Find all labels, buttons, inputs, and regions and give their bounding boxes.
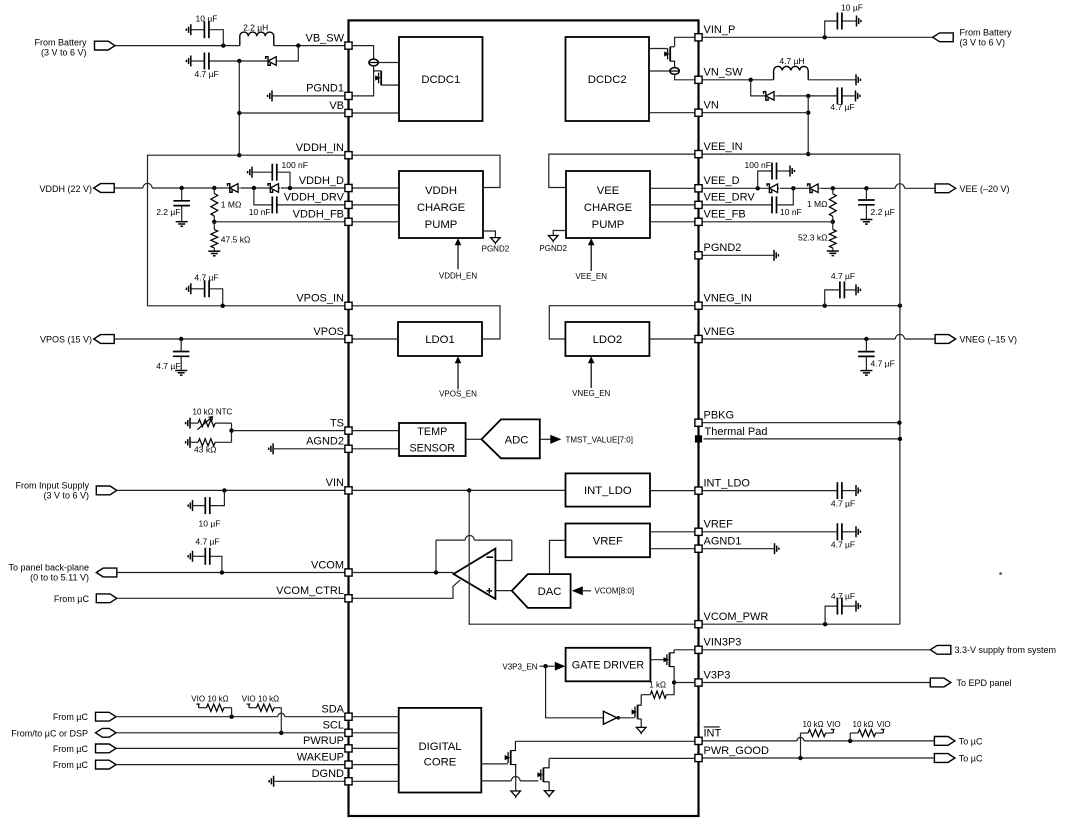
transistor Q1 DCDC1 low side — [374, 71, 399, 85]
svg-text:VEE: VEE — [597, 185, 620, 197]
pin PBKG — [695, 419, 702, 426]
node VN junction — [806, 111, 810, 115]
node TS junction — [229, 428, 233, 432]
NTC arrow overlay — [197, 417, 212, 430]
label C7 value 10 nF — [249, 207, 271, 217]
svg-text:100 nF: 100 nF — [745, 160, 771, 170]
pin Thermal Pad (filled) — [695, 435, 702, 442]
block TEMP SENSOR — [399, 423, 466, 456]
ground at C5 — [176, 222, 188, 227]
diode D5 — [767, 184, 779, 193]
signal VEE_EN enable arrow — [575, 238, 607, 281]
pin label VEE_FB — [704, 209, 746, 221]
label From uC (VCOM_CTRL) — [54, 594, 90, 604]
pin label VDDH_D — [299, 175, 344, 187]
node battery/C1 junction — [221, 43, 225, 47]
svg-text:10 µF: 10 µF — [199, 519, 221, 529]
label R5 value 43 kohm — [194, 444, 216, 454]
wire D5 to D6 — [780, 187, 810, 189]
svg-text:SENSOR: SENSOR — [409, 442, 455, 454]
label VNEG (-15 V) — [960, 335, 1018, 345]
wire VPOS_IN internal loop — [352, 306, 500, 339]
ground at C18 — [188, 551, 192, 562]
svg-text:10 kΩ: 10 kΩ — [803, 720, 824, 729]
svg-text:VN: VN — [704, 100, 719, 112]
wire VCOM rail — [117, 572, 345, 574]
ground at C13 — [856, 284, 860, 295]
wire INT_LDO to pin — [650, 490, 695, 492]
wire switch to VN_SW — [675, 74, 695, 79]
capacitor C4 4.7uF — [837, 87, 855, 104]
label R2 value 47.5 kohm — [221, 234, 251, 244]
node C11/VPOS_IN — [221, 304, 225, 308]
svg-text:VIN_P: VIN_P — [704, 24, 736, 36]
node VEE/R3 — [831, 186, 835, 190]
svg-text:CHARGE: CHARGE — [584, 202, 633, 214]
capacitor C6 100nF — [252, 164, 277, 181]
block INT_LDO — [566, 473, 651, 506]
pin TS — [345, 427, 352, 434]
svg-text:4.7 µF: 4.7 µF — [831, 591, 855, 601]
svg-text:10 nF: 10 nF — [249, 207, 271, 217]
svg-text:From Battery: From Battery — [960, 27, 1013, 37]
pin VB_SW — [345, 42, 352, 49]
wire VB_SW inductor to pin — [274, 45, 345, 47]
node SDA pullup — [229, 715, 233, 719]
wire L2 to ground — [808, 79, 856, 81]
wire PGND1 — [272, 95, 345, 97]
wire C1 branch — [210, 30, 224, 46]
pin PWRUP — [345, 745, 352, 752]
svg-text:To µC: To µC — [959, 736, 983, 746]
pin label VDDH_IN — [296, 142, 344, 154]
label PGND2 (VEE CP) — [539, 244, 567, 253]
buffer U3 triangle — [603, 711, 616, 724]
connector VNEG output — [935, 335, 956, 344]
transistor Q5 pulldown — [632, 695, 642, 728]
resistor R6 1 kohm — [641, 691, 669, 698]
ground at C2 — [186, 56, 190, 67]
svg-text:VPOS (15 V): VPOS (15 V) — [40, 335, 92, 345]
node VNEG/C14 — [864, 337, 868, 341]
pin DGND — [345, 778, 352, 785]
wire AGND2 internal — [352, 448, 399, 450]
wire VDDH_FB internal — [352, 221, 399, 223]
svg-text:10 kΩ: 10 kΩ — [208, 695, 229, 704]
block ADC — [482, 419, 540, 458]
op-amp U2 VCOM amplifier — [454, 549, 496, 599]
svg-text:PGND2: PGND2 — [482, 244, 510, 253]
wire core to Q7 gate with hop — [481, 777, 538, 781]
wire VCOM internal — [352, 572, 454, 574]
node VIN_P/C3 — [823, 35, 827, 39]
svg-text:VIO: VIO — [877, 720, 891, 729]
wire VREF to DAC — [550, 540, 566, 574]
pin label PWR_GOOD — [704, 745, 769, 757]
wire VEE_D external — [702, 187, 769, 189]
block VDDH CHARGE PUMP — [399, 171, 483, 238]
label C15 value 10 uF — [199, 519, 221, 529]
wire opamp plus input — [495, 590, 511, 592]
svg-text:4.7 µF: 4.7 µF — [194, 272, 218, 282]
pin label VCOM_CTRL — [276, 585, 344, 597]
label TMST_VALUE[7:0] — [566, 435, 633, 444]
ground at C17 — [856, 526, 860, 537]
connector From uC PWRUP — [96, 744, 117, 753]
pin label VN — [704, 100, 719, 112]
wire VN external — [702, 112, 808, 114]
wire VB — [239, 112, 345, 114]
wire VEE_IN external — [702, 153, 900, 155]
label From/to uC or DSP — [11, 728, 88, 738]
diode D1 — [266, 57, 278, 66]
svg-text:DCDC1: DCDC1 — [421, 74, 460, 86]
block GATE DRIVER — [566, 648, 651, 682]
label From Input Supply — [15, 480, 89, 490]
svg-text:DGND: DGND — [312, 768, 344, 780]
pin label AGND1 — [704, 536, 742, 548]
label VPOS (15 V) — [40, 335, 92, 345]
wire VCOM[8:0] stub — [583, 590, 591, 592]
wire Thermal Pad external — [704, 438, 901, 440]
svg-text:PBKG: PBKG — [704, 410, 735, 422]
wire SCL internal — [352, 732, 399, 734]
wire VIN rail — [117, 489, 345, 491]
wire TEMP to ADC — [466, 438, 482, 440]
svg-text:INT_LDO: INT_LDO — [584, 485, 632, 497]
pin VDDH_DRV — [345, 201, 352, 208]
svg-text:VDDH_IN: VDDH_IN — [296, 142, 344, 154]
label C9 value 10 nF — [780, 207, 802, 217]
ground DGND — [269, 776, 273, 787]
switch symbol DCDC2 low side — [670, 68, 679, 75]
node D2/C4 junction — [806, 94, 810, 98]
pin label Thermal Pad — [705, 426, 768, 438]
svg-text:VIO: VIO — [827, 720, 841, 729]
wire D1 to VB_SW — [279, 46, 299, 61]
wire VEE_FB external — [702, 221, 833, 223]
capacitor C19 4.7uF — [837, 598, 856, 615]
svg-text:From/to µC or DSP: From/to µC or DSP — [11, 728, 88, 738]
wire C15 branch — [211, 490, 225, 505]
capacitor C13 4.7uF — [840, 281, 856, 298]
arrow VCOM[8:0] — [572, 586, 583, 595]
ground PGND2 pin — [774, 250, 778, 261]
wire SCL rail — [116, 732, 345, 734]
transistor Q6 INT open-drain — [505, 741, 516, 776]
svg-text:VIN: VIN — [326, 477, 344, 489]
ground AGND1 — [775, 543, 779, 554]
svg-text:VCOM_PWR: VCOM_PWR — [704, 611, 769, 623]
ground R5 — [186, 437, 190, 448]
pin PGND2 — [695, 252, 702, 259]
svg-text:VDDH_FB: VDDH_FB — [293, 209, 344, 221]
label C8 value 100 nF — [745, 160, 771, 170]
wire VNEG rail with hop — [702, 334, 935, 339]
label R6 value 1 kohm — [649, 681, 666, 690]
block VREF — [566, 524, 651, 558]
pin label VPOS — [313, 326, 344, 338]
capacitor C2 4.7uF — [191, 53, 240, 70]
transistor Q2 DCDC2 high side — [664, 47, 674, 68]
svg-text:VNEG: VNEG — [704, 326, 735, 338]
wire R10 to INT — [849, 733, 851, 741]
svg-text:VDDH: VDDH — [425, 185, 457, 197]
node VNEG_IN/bus — [898, 304, 902, 308]
arrow TMST_VALUE — [550, 435, 561, 444]
svg-text:VIN3P3: VIN3P3 — [704, 637, 742, 649]
connector VDDH output — [94, 184, 115, 193]
node VIN internal junction — [467, 488, 471, 492]
label VIO (R7) — [191, 695, 205, 704]
svg-text:VEE_EN: VEE_EN — [575, 272, 607, 281]
capacitor C9 10nF — [702, 196, 777, 213]
transistor Q4 V3P3 switch — [664, 650, 675, 683]
node buffer output — [617, 716, 621, 720]
VIO tick R8 — [247, 704, 251, 708]
svg-text:Thermal Pad: Thermal Pad — [705, 426, 768, 438]
svg-text:(0 to to 5.11 V): (0 to to 5.11 V) — [30, 572, 89, 582]
svg-text:1 MΩ: 1 MΩ — [807, 199, 828, 209]
resistor R3 1 Mohm — [829, 188, 836, 222]
connector VEE output — [935, 184, 956, 193]
svg-text:1 MΩ: 1 MΩ — [221, 199, 242, 209]
label L2 value 4.7 uH — [779, 56, 804, 66]
wire TS external — [232, 430, 346, 432]
wire AGND2 external — [273, 448, 345, 450]
node PWR_GOOD pullup — [798, 756, 802, 760]
svg-text:100 nF: 100 nF — [282, 160, 308, 170]
pin label VB — [329, 100, 344, 112]
wire C19 branch — [825, 606, 837, 624]
connector From uC SDA — [96, 712, 117, 721]
ground NTC top — [186, 418, 190, 429]
label R9 value 10 kohm — [803, 720, 824, 729]
node VCOM_PWR/C19 — [823, 622, 827, 626]
label To panel back-plane — [8, 562, 89, 572]
resistor R1 1 Mohm — [211, 188, 218, 222]
wire VEE rail with hop — [820, 184, 935, 189]
svg-text:VCOM[8:0]: VCOM[8:0] — [595, 587, 635, 596]
wire VDDH rail — [152, 187, 230, 189]
capacitor C17 4.7uF — [837, 523, 856, 540]
pin VDDH_D — [345, 184, 352, 191]
svg-text:10 µF: 10 µF — [196, 13, 218, 23]
label (3 V to 6 V) input — [43, 490, 89, 500]
wire D4 to VDDH_D pin — [281, 187, 345, 189]
pin label VEE_IN — [704, 141, 743, 153]
wire VCOM_CTRL internal — [352, 580, 460, 598]
pin VREF — [695, 528, 702, 535]
wire VDDH_FB external — [214, 221, 345, 223]
svg-text:DCDC2: DCDC2 — [588, 74, 627, 86]
resistor R8 10 kohm — [249, 704, 281, 711]
wire AGND1 from VREF — [650, 548, 695, 550]
svg-text:PWRUP: PWRUP — [303, 735, 344, 747]
connector From Input Supply — [96, 486, 117, 495]
ground PGND2 (VEE CP) — [548, 236, 558, 243]
wire From Battery to VB_SW pin — [116, 45, 240, 47]
svg-text:VDDH (22 V): VDDH (22 V) — [39, 184, 92, 194]
svg-text:CORE: CORE — [424, 756, 457, 768]
pin SDA — [345, 713, 352, 720]
svg-text:PGND2: PGND2 — [539, 244, 567, 253]
wire INT external with hop — [702, 737, 934, 741]
svg-text:(3 V to 6 V): (3 V to 6 V) — [41, 47, 87, 57]
wire VDDH connector lead — [115, 187, 143, 189]
label RT1 10 kohm NTC — [193, 408, 233, 417]
svg-text:DIGITAL: DIGITAL — [418, 741, 461, 753]
pin label DGND — [312, 768, 344, 780]
pin VN — [695, 109, 702, 116]
wire C8 branch — [758, 171, 772, 188]
connector VPOS output — [94, 335, 115, 344]
pin label VDDH_FB — [293, 209, 344, 221]
svg-text:2.2 µF: 2.2 µF — [156, 207, 180, 217]
inductor L2 4.7uH — [774, 66, 809, 79]
label (3 V to 6 V) — [41, 47, 87, 57]
wire VEE_DRV internal — [650, 204, 695, 206]
wire TS internal — [352, 430, 399, 432]
VIO tick R7 — [196, 704, 200, 708]
ground AGND2 — [269, 443, 273, 454]
connector To EPD panel — [930, 678, 951, 687]
node SCL pullup — [279, 731, 283, 735]
wire PWR_GOOD internal — [549, 757, 695, 759]
capacitor C11 4.7uF — [191, 280, 209, 297]
wire buffer to Q5 gate — [617, 717, 635, 719]
svg-text:VEE (–20 V): VEE (–20 V) — [960, 184, 1010, 194]
svg-text:ADC: ADC — [505, 434, 529, 446]
svg-text:VEE_FB: VEE_FB — [704, 209, 746, 221]
pin VNEG_IN — [695, 302, 702, 309]
svg-text:10 kΩ: 10 kΩ — [258, 695, 279, 704]
label R10 value 10 kohm — [853, 720, 874, 729]
capacitor C15 10uF — [193, 497, 210, 514]
label C1 value 10 uF — [196, 13, 218, 23]
diode D6 — [808, 184, 820, 193]
wire SDA internal — [352, 716, 399, 718]
svg-text:4.7 µF: 4.7 µF — [830, 102, 854, 112]
wire VIN internal — [352, 489, 566, 491]
pin label VN_SW — [704, 67, 744, 79]
svg-text:VCOM_CTRL: VCOM_CTRL — [276, 585, 344, 597]
wire feedback right side — [495, 540, 511, 560]
node VCOM/C18 — [220, 570, 224, 574]
svg-text:VDDH_DRV: VDDH_DRV — [284, 192, 345, 204]
svg-text:47.5 kΩ: 47.5 kΩ — [221, 234, 251, 244]
connector From Battery (left) — [95, 41, 116, 50]
wire VEE_IN internal loop — [549, 154, 695, 187]
wire D3 to D4 — [240, 187, 270, 189]
block LDO2 — [565, 322, 649, 356]
pin label VEE_D — [704, 175, 740, 187]
pin label VDDH_DRV — [284, 192, 345, 204]
svg-text:VNEG_EN: VNEG_EN — [572, 389, 610, 398]
svg-text:PGND1: PGND1 — [306, 83, 344, 95]
capacitor C18 4.7uF — [193, 548, 210, 565]
ground at C6 — [248, 167, 252, 178]
label C14 value 4.7 uF — [871, 359, 895, 369]
node VB_SW/D1 junction — [296, 43, 300, 47]
wire VB_SW to switch — [352, 46, 374, 60]
svg-text:VEE_IN: VEE_IN — [704, 141, 743, 153]
label C12 value 4.7 uF — [156, 361, 180, 371]
diode D4 — [268, 184, 280, 193]
node D4/C7 junction — [288, 186, 292, 190]
svg-text:TEMP: TEMP — [417, 426, 447, 438]
connector From uC WAKEUP — [96, 760, 117, 769]
svg-text:To EPD panel: To EPD panel — [957, 678, 1012, 688]
pin PWR_GOOD — [695, 754, 702, 761]
resistor R7 10 kohm — [199, 704, 232, 711]
wire VCOM_CTRL rail — [117, 597, 345, 599]
wire VB to DCDC1 — [352, 112, 399, 114]
wire VIN3P3 internal — [674, 649, 695, 651]
node VEE_D/C8 — [756, 186, 760, 190]
svg-text:10 nF: 10 nF — [780, 207, 802, 217]
block VEE CHARGE PUMP — [566, 171, 650, 238]
pin VIN — [345, 487, 352, 494]
wire opamp feedback with hop — [436, 535, 512, 540]
pin INT — [695, 737, 702, 744]
label To uC (PWR_GOOD) — [959, 754, 983, 764]
svg-text:VNEG_IN: VNEG_IN — [704, 293, 752, 305]
wire V3P3_EN — [540, 665, 555, 667]
svg-text:VREF: VREF — [593, 535, 623, 547]
resistor R5 43 kohm — [190, 439, 232, 446]
wire VN from DCDC2 — [649, 112, 695, 114]
label C6 value 100 nF — [282, 160, 308, 170]
wire C3 branch — [825, 21, 838, 37]
block DCDC1 — [399, 37, 483, 121]
wire VREF cap external — [702, 531, 837, 533]
node R3/R4/VEE_FB — [831, 220, 835, 224]
pin AGND2 — [345, 445, 352, 452]
resistor RT1 NTC 10k — [190, 420, 232, 427]
svg-text:TMST_VALUE[7:0]: TMST_VALUE[7:0] — [566, 435, 633, 444]
label From uC (SDA) — [53, 712, 89, 722]
pin label PGND2 — [704, 242, 742, 254]
wire INT internal — [515, 740, 695, 742]
svg-text:PUMP: PUMP — [425, 219, 458, 231]
svg-text:1 kΩ: 1 kΩ — [649, 681, 666, 690]
node VNEG_IN/C13 — [823, 304, 827, 308]
svg-text:10 kΩ: 10 kΩ — [853, 720, 874, 729]
wire C18 branch — [211, 556, 222, 572]
svg-text:SDA: SDA — [321, 704, 344, 716]
capacitor C10 2.2uF — [858, 188, 875, 219]
wire VDDH_D internal — [352, 187, 399, 189]
pin label WAKEUP — [297, 751, 344, 763]
label VIO (R9) — [827, 720, 841, 729]
wire VDDH hop over loop — [143, 183, 152, 188]
ground PGND2 (VDDH CP) — [491, 238, 501, 245]
capacitor C12 4.7uF — [173, 339, 190, 371]
pin VEE_D — [695, 185, 702, 192]
node C2/VB column junction — [237, 59, 241, 63]
wire PGND2 pin external — [702, 254, 774, 256]
capacitor C7 10nF — [272, 196, 345, 213]
wire PWRUP rail — [116, 747, 345, 749]
svg-text:LDO1: LDO1 — [425, 334, 455, 346]
pin V3P3 — [695, 679, 702, 686]
label To uC (INT) — [959, 736, 983, 746]
wire VN column — [807, 96, 809, 154]
wire DGND external — [274, 780, 345, 782]
svg-text:52.3 kΩ: 52.3 kΩ — [798, 232, 828, 242]
wire VN_SW external — [702, 79, 774, 81]
